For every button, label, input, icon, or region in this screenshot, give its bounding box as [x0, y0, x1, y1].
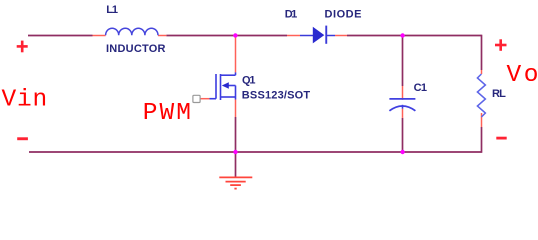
svg-text:Vo: Vo: [507, 62, 538, 89]
svg-text:C1: C1: [414, 82, 427, 94]
svg-text:Vin: Vin: [2, 87, 49, 114]
svg-text:BSS123/SOT: BSS123/SOT: [242, 90, 311, 102]
svg-text:Q1: Q1: [242, 74, 256, 86]
svg-text:D1: D1: [285, 9, 298, 21]
svg-text:L1: L1: [106, 4, 118, 16]
svg-text:PWM: PWM: [143, 100, 193, 127]
svg-text:DIODE: DIODE: [325, 9, 362, 21]
svg-text:RL: RL: [492, 88, 506, 100]
svg-text:INDUCTOR: INDUCTOR: [106, 43, 166, 55]
